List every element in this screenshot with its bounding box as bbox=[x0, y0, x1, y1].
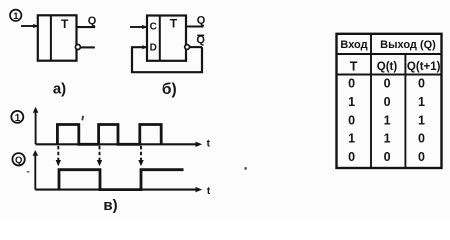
inverter bubble U1 bbox=[75, 45, 80, 50]
table row 3 bbox=[348, 113, 425, 127]
table row 1 bbox=[348, 77, 425, 91]
svg-text:T: T bbox=[350, 60, 358, 74]
axis vertical Q bbox=[34, 154, 36, 190]
wire clock input to flip-flop U2 bbox=[130, 26, 146, 28]
svg-text:1: 1 bbox=[15, 113, 21, 124]
waveform Q bbox=[59, 170, 184, 190]
svg-text:1: 1 bbox=[13, 11, 19, 22]
svg-text:T: T bbox=[170, 17, 178, 31]
svg-text:0: 0 bbox=[384, 77, 391, 91]
svg-text:б): б) bbox=[162, 81, 177, 98]
svg-text:0: 0 bbox=[348, 150, 355, 164]
flip-flop U2 body bbox=[147, 16, 186, 61]
svg-text:Q: Q bbox=[15, 155, 22, 166]
waveform clock pulses bbox=[57, 125, 161, 145]
scan artifact marks bbox=[27, 116, 247, 173]
svg-text:1: 1 bbox=[384, 113, 391, 127]
svg-text:0: 0 bbox=[348, 77, 355, 91]
svg-text:1: 1 bbox=[418, 95, 425, 109]
wire output Q of U2 bbox=[186, 25, 204, 27]
wire inverted output of U1 bbox=[81, 46, 95, 48]
table row 5 bbox=[348, 150, 425, 164]
axis horizontal Q bbox=[35, 189, 197, 191]
table row 4 bbox=[348, 132, 425, 146]
svg-text:1: 1 bbox=[418, 113, 425, 127]
svg-text:0: 0 bbox=[348, 113, 355, 127]
svg-text:T: T bbox=[61, 17, 69, 31]
svg-text:0: 0 bbox=[384, 150, 391, 164]
truth table header separator 1 bbox=[337, 53, 442, 55]
svg-text:1: 1 bbox=[348, 132, 355, 146]
inverter bubble U2 bbox=[185, 45, 190, 50]
flip-flop U1 body bbox=[38, 15, 77, 60]
wire inverted output Qbar of U2 bbox=[190, 46, 202, 48]
node input circled 1 (schematic a) bbox=[10, 10, 21, 23]
svg-text:1: 1 bbox=[384, 132, 391, 146]
table row 2 bbox=[348, 95, 425, 109]
truth table header separator 2 bbox=[337, 74, 442, 76]
node clock circled 1 (timing) bbox=[11, 111, 23, 124]
wire output Q of U1 bbox=[77, 26, 96, 28]
svg-text:0: 0 bbox=[384, 95, 391, 109]
wire input to flip-flop U1 bbox=[21, 25, 37, 27]
svg-text:0: 0 bbox=[418, 150, 425, 164]
node output circled Q (timing) bbox=[12, 153, 24, 166]
svg-text:C: C bbox=[150, 22, 157, 33]
wire feedback Qbar to D input bbox=[132, 47, 202, 72]
axis vertical clock bbox=[35, 111, 37, 144]
svg-text:D: D bbox=[150, 42, 157, 53]
svg-text:Выход (Q): Выход (Q) bbox=[380, 39, 436, 51]
svg-text:Вход: Вход bbox=[340, 39, 367, 51]
dashed edge arrow 1 bbox=[56, 146, 61, 166]
flip-flop U1 divider bbox=[50, 15, 52, 60]
svg-text:Q(t+1): Q(t+1) bbox=[407, 61, 441, 73]
svg-text:Q: Q bbox=[197, 14, 206, 26]
dashed edge arrow 3 bbox=[138, 146, 143, 166]
svg-text:в): в) bbox=[103, 197, 117, 214]
truth table column line 2 bbox=[404, 54, 406, 168]
svg-text:Q: Q bbox=[88, 15, 97, 27]
axis horizontal clock bbox=[36, 143, 197, 145]
flip-flop U2 divider bbox=[159, 16, 161, 61]
svg-text:0: 0 bbox=[418, 132, 425, 146]
dashed edge arrow 2 bbox=[97, 146, 102, 166]
truth table frame bbox=[337, 34, 442, 168]
svg-text:0: 0 bbox=[418, 77, 425, 91]
svg-text:Q(t): Q(t) bbox=[377, 61, 398, 73]
svg-text:1: 1 bbox=[348, 95, 355, 109]
truth table column line 1 bbox=[370, 34, 372, 168]
svg-text:а): а) bbox=[53, 80, 66, 97]
